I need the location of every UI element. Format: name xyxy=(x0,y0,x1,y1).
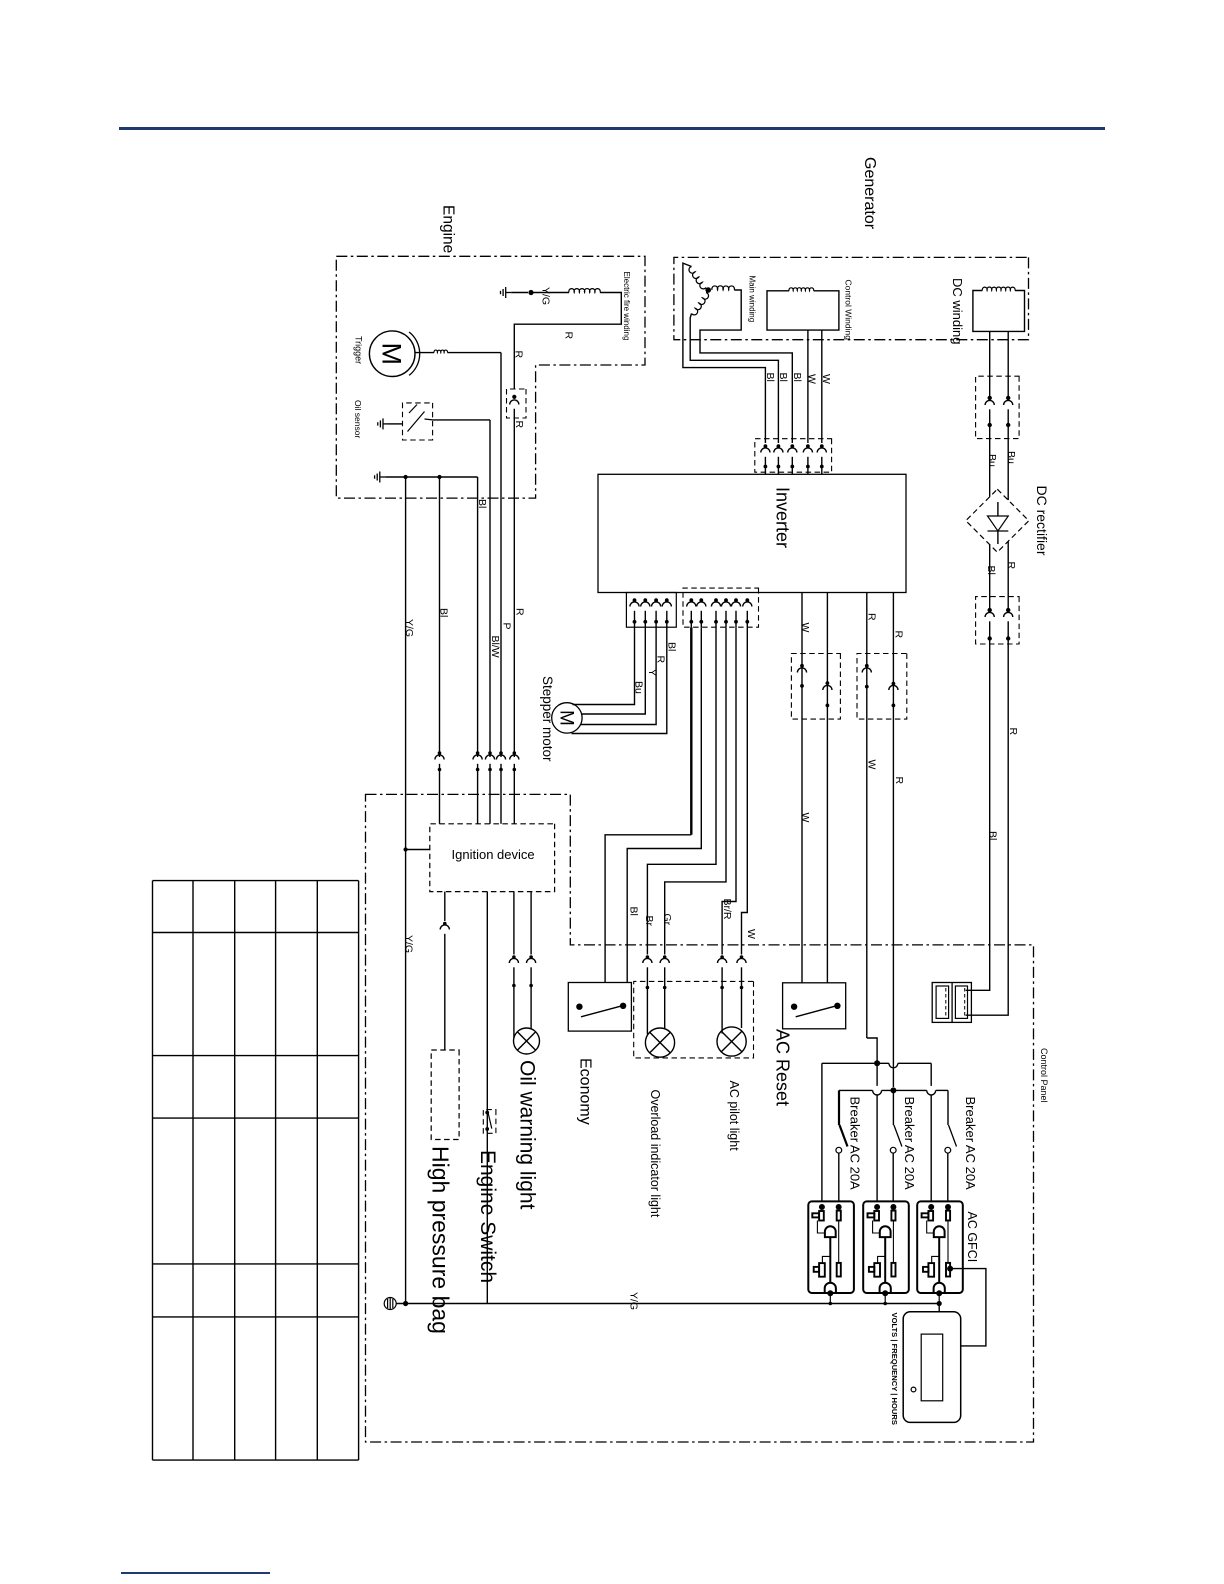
breaker 2 AC 20A xyxy=(892,1090,894,1125)
svg-text:R: R xyxy=(893,777,905,785)
svg-text:W: W xyxy=(799,813,811,823)
svg-text:W: W xyxy=(820,374,832,384)
bus2 xyxy=(839,1089,873,1091)
oil sensor box (dashed) xyxy=(403,403,433,440)
wire W2 to AC reset xyxy=(826,593,828,983)
breaker 1 AC 20A xyxy=(838,1090,840,1125)
engine boundary (dash-dot) xyxy=(336,256,645,498)
svg-text:W: W xyxy=(866,760,878,770)
svg-text:Ignition device: Ignition device xyxy=(452,847,535,862)
svg-text:Bl: Bl xyxy=(791,373,803,382)
CN5 pin 1 xyxy=(764,444,768,448)
oil warning lamp xyxy=(514,1028,540,1054)
svg-text:Overload indicator light: Overload indicator light xyxy=(648,1090,662,1218)
table column line 2 xyxy=(192,881,194,1461)
rectifier diode symbol xyxy=(997,502,999,516)
main winding Y-coil xyxy=(705,287,711,293)
control winding taps xyxy=(807,330,809,443)
svg-text:Breaker AC 20A: Breaker AC 20A xyxy=(963,1097,978,1191)
svg-text:AC Reset: AC Reset xyxy=(773,1029,793,1106)
wire trigger to P xyxy=(447,352,501,354)
inline connector on engine wire 2 xyxy=(476,751,480,755)
CN4 pin 2 xyxy=(643,598,647,602)
AC pilot lamp xyxy=(717,1027,746,1056)
table row line 1 xyxy=(153,880,359,882)
table column line 5 xyxy=(316,881,318,1461)
wire Bl-1 down xyxy=(439,477,441,757)
main winding wire right arm xyxy=(700,290,792,443)
inline connector on lamp wire 4 xyxy=(740,955,744,959)
wire Bl down to fuse block xyxy=(966,639,990,991)
svg-text:W: W xyxy=(805,374,817,384)
connector CN4 (solid) under inverter xyxy=(626,593,676,628)
svg-text:Trigger: Trigger xyxy=(354,336,364,364)
Y/G bottom wire xyxy=(396,1303,940,1305)
inverter box xyxy=(598,474,906,592)
svg-text:Bl: Bl xyxy=(987,831,999,840)
svg-text:Control Panel: Control Panel xyxy=(1039,1048,1049,1103)
engine ground bus xyxy=(375,472,386,483)
svg-text:Bl: Bl xyxy=(628,907,640,916)
svg-text:Bl: Bl xyxy=(764,373,776,382)
breaker 3 AC 20A xyxy=(947,1090,949,1125)
CN6 pin 2 xyxy=(699,598,703,602)
svg-text:Y/G: Y/G xyxy=(628,1292,640,1310)
electric fire winding coil xyxy=(534,292,570,294)
svg-text:Bl: Bl xyxy=(476,499,488,508)
CN6 pin 3 xyxy=(714,598,718,602)
overload indicator lamp xyxy=(645,1028,674,1057)
wire rec2 left feed xyxy=(876,1063,878,1086)
voltmeter display xyxy=(921,1334,943,1401)
svg-text:R: R xyxy=(1007,728,1019,736)
footer rule xyxy=(121,1572,270,1574)
economy switch box xyxy=(568,983,631,1032)
svg-text:M: M xyxy=(377,342,407,365)
svg-text:Bl: Bl xyxy=(777,373,789,382)
svg-text:R: R xyxy=(866,613,878,621)
table column line 4 xyxy=(275,881,277,1461)
CN6 pin 1 xyxy=(689,598,693,602)
CN6 pin 5 xyxy=(734,598,738,602)
svg-text:R: R xyxy=(514,608,526,616)
svg-text:High pressure bag: High pressure bag xyxy=(428,1146,454,1334)
svg-text:P: P xyxy=(500,623,512,630)
svg-text:Bu: Bu xyxy=(1005,451,1017,464)
connector CN-RR (dashed) xyxy=(857,654,907,720)
CN6 pin 4 xyxy=(724,598,728,602)
receptacle 3 GFCI xyxy=(917,1201,963,1293)
svg-text:Y/G: Y/G xyxy=(403,619,415,637)
junction dot voltmeter top xyxy=(937,1301,942,1306)
wire R2 to bus2 xyxy=(892,593,894,1088)
svg-text:Stepper motor: Stepper motor xyxy=(540,676,555,762)
connector CN-DC1 (dashed) xyxy=(976,376,1020,438)
wires Bu to rectifier xyxy=(989,425,991,497)
svg-text:R: R xyxy=(513,421,525,429)
table row line 5 xyxy=(153,1263,359,1265)
high pressure bag box (dashed) xyxy=(431,1050,459,1140)
header rule xyxy=(119,127,1105,130)
wire lamp Gr xyxy=(665,627,726,954)
svg-text:Bu: Bu xyxy=(633,681,645,694)
svg-text:Bl: Bl xyxy=(665,642,677,651)
connector CN6 (dashed) under inverter xyxy=(683,588,759,627)
inline connector on lamp wire 1 xyxy=(646,955,650,959)
AC reset switch box xyxy=(783,983,846,1029)
ground of electric fire winding xyxy=(501,287,512,298)
svg-text:Gr: Gr xyxy=(661,914,673,926)
wire rec1 left feed xyxy=(821,1063,823,1201)
svg-text:Engine: Engine xyxy=(439,205,456,253)
stepper motor wires xyxy=(573,627,635,704)
table row line 2 xyxy=(153,932,359,934)
connector CN-DC2 (dashed) xyxy=(976,597,1020,644)
wire Bl-2 down xyxy=(477,477,479,757)
generator boundary (dash-dot) xyxy=(674,257,1029,339)
table row line 7 xyxy=(153,1459,359,1461)
CN4 pin 4 xyxy=(665,598,669,602)
table column line 3 xyxy=(234,881,236,1461)
wire Y/G to ignition xyxy=(403,847,407,851)
connector CN5 (dashed) xyxy=(755,439,832,473)
svg-text:Electric fire winding: Electric fire winding xyxy=(622,272,631,341)
oil warning light wire 2 xyxy=(530,892,532,955)
CN4 pin 1 xyxy=(633,598,637,602)
svg-text:Control Winding: Control Winding xyxy=(843,280,853,341)
junction dot Bl bus xyxy=(437,475,441,479)
svg-text:Oil warning light: Oil warning light xyxy=(515,1060,538,1210)
wire W to AC reset xyxy=(801,593,803,983)
inline connector on lamp wire 3 xyxy=(720,955,724,959)
connector CN-R (dashed box) xyxy=(507,389,527,418)
svg-text:Breaker AC 20A: Breaker AC 20A xyxy=(848,1097,863,1191)
engine switch wire xyxy=(486,892,488,1304)
inline connector on engine wire 3 xyxy=(488,751,492,755)
wire economy-2 Bl xyxy=(627,627,701,982)
ground of oil sensor xyxy=(389,423,403,425)
CN5 pin 3 xyxy=(790,444,794,448)
wire R down to fuse block xyxy=(966,639,1009,1016)
svg-text:Bu: Bu xyxy=(986,454,998,467)
CN5 pin 2 xyxy=(777,444,781,448)
wires below ignition xyxy=(444,892,446,921)
svg-text:Br: Br xyxy=(643,916,655,927)
svg-text:Y/G: Y/G xyxy=(539,287,551,305)
CN5 pin 5 xyxy=(820,444,824,448)
table column line 6 xyxy=(358,881,360,1461)
wire lamp Br/R xyxy=(722,627,736,954)
DC winding taps xyxy=(989,331,991,394)
table column line 1 xyxy=(152,881,154,1461)
wire oil sensor Bl/W xyxy=(433,419,490,421)
chassis ground circle xyxy=(384,1298,396,1310)
svg-text:AC GFCI: AC GFCI xyxy=(965,1212,979,1263)
CN-DC1 pin 1 xyxy=(988,396,992,400)
oil sensor switch xyxy=(408,412,425,432)
voltmeter body xyxy=(903,1312,961,1423)
CN5 pin 4 xyxy=(806,444,810,448)
DC winding xyxy=(973,291,1025,332)
svg-text:W: W xyxy=(799,623,811,633)
wire lamp Br xyxy=(647,627,716,954)
wire Y/G down xyxy=(405,477,407,1304)
svg-text:M: M xyxy=(555,710,576,726)
node dot Y/G xyxy=(511,292,528,294)
main winding wire top arm xyxy=(683,263,766,443)
CN4 pin 3 xyxy=(654,598,658,602)
GFCI output wire to voltmeter xyxy=(950,1269,986,1346)
junction dot Y/G bus xyxy=(403,475,407,479)
svg-text:Oil sensor: Oil sensor xyxy=(353,400,363,438)
CN-DC2 pin 1 xyxy=(988,608,992,612)
receptacle 1 xyxy=(808,1201,854,1293)
CN-DC1 pin 2 xyxy=(1006,396,1010,400)
svg-text:Y/G: Y/G xyxy=(403,935,415,953)
svg-text:DC winding: DC winding xyxy=(950,278,965,344)
overload + AC pilot box (dashed) xyxy=(634,981,754,1058)
inline connector on lamp wire 2 xyxy=(663,955,667,959)
stepper motor circle M xyxy=(552,703,582,733)
wire lamp W xyxy=(742,627,748,954)
svg-text:Engine Switch: Engine Switch xyxy=(476,1150,499,1283)
inline connector on engine wire 1 xyxy=(438,751,442,755)
svg-text:Breaker AC 20A: Breaker AC 20A xyxy=(902,1097,917,1191)
control panel boundary (dash-dot) xyxy=(366,794,1034,1442)
oil warning light wire 1 xyxy=(513,892,515,955)
svg-text:Generator: Generator xyxy=(861,157,878,230)
svg-text:Bl/W: Bl/W xyxy=(489,636,501,658)
table row line 3 xyxy=(153,1055,359,1057)
wire electric fire winding to R xyxy=(514,293,621,390)
svg-text:AC pilot light: AC pilot light xyxy=(727,1081,741,1152)
engine switch (dashed box) xyxy=(483,1110,496,1134)
inline connector on engine wire 4 xyxy=(499,751,503,755)
svg-text:Y: Y xyxy=(646,669,658,676)
svg-text:R: R xyxy=(893,631,905,639)
DC rectifier diamond (dashed) xyxy=(966,489,1029,552)
svg-text:R: R xyxy=(655,656,667,664)
CN-DC2 pin 2 xyxy=(1006,608,1010,612)
CN6 pin 6 xyxy=(745,598,749,602)
trigger coil xyxy=(415,352,434,354)
svg-text:W: W xyxy=(745,929,757,939)
svg-text:R: R xyxy=(513,351,525,359)
svg-text:R: R xyxy=(562,332,574,340)
svg-text:DC rectifier: DC rectifier xyxy=(1034,486,1050,556)
wire economy-1 (bold) xyxy=(690,627,692,835)
ignition device box (dashed) xyxy=(430,824,555,892)
bus1 xyxy=(822,1062,889,1064)
wire rec3 left feed xyxy=(930,1063,932,1086)
svg-text:VOLTS | FREQUENCY | HOURS: VOLTS | FREQUENCY | HOURS xyxy=(890,1313,899,1425)
svg-text:Bl: Bl xyxy=(438,608,450,617)
svg-text:Br/R: Br/R xyxy=(721,899,733,920)
control winding xyxy=(767,291,839,330)
wires Bl R below rectifier xyxy=(989,545,991,611)
svg-text:Bl: Bl xyxy=(985,566,997,575)
svg-text:Inverter: Inverter xyxy=(773,487,793,548)
trigger magneto M xyxy=(369,331,415,377)
inline connector on engine wire 5 xyxy=(513,751,517,755)
main winding wire bottom arm xyxy=(690,314,778,444)
Y/G ground junction dot xyxy=(403,1301,408,1306)
wire R1 to bus1 xyxy=(866,593,868,1039)
svg-text:Main winding: Main winding xyxy=(747,276,756,323)
table row line 4 xyxy=(153,1117,359,1119)
svg-text:Economy: Economy xyxy=(576,1058,593,1125)
receptacle 2 xyxy=(863,1201,909,1293)
voltmeter button xyxy=(911,1387,916,1392)
fuse block (double rectangles) xyxy=(932,983,971,1023)
table row line 6 xyxy=(153,1316,359,1318)
svg-text:R: R xyxy=(1005,562,1017,570)
connector CN-W (dashed) xyxy=(791,654,840,720)
